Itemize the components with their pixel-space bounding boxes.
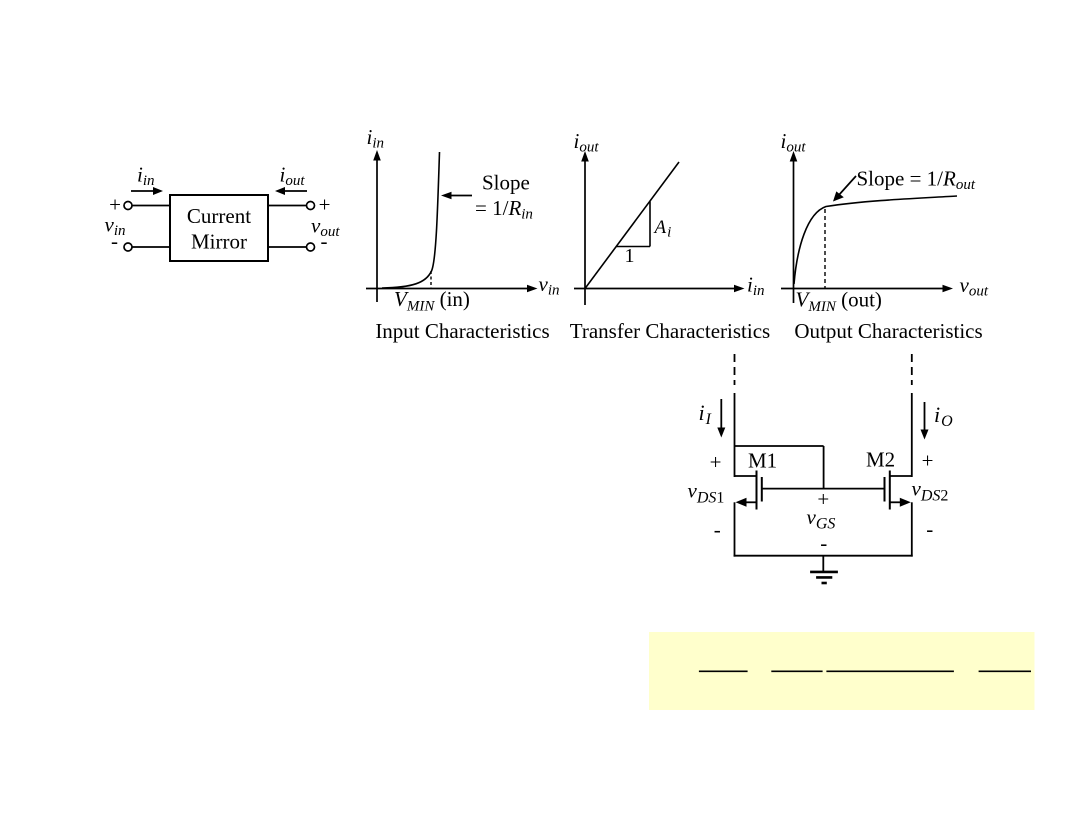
input curve [382,152,440,288]
input characteristics y-axis [373,150,381,302]
output curve [794,196,957,284]
svg-text:Transfer Characteristics: Transfer Characteristics [570,319,770,343]
svg-text:Mirror: Mirror [191,230,247,254]
fraction bar 2 [771,670,822,672]
dashed vmin(in) line [430,271,432,289]
node input + terminal [124,202,132,210]
transfer characteristics x-axis [574,285,745,293]
arrow iO [921,402,929,440]
wire source M2 down [911,502,913,556]
wire input bottom [132,246,170,248]
output characteristics x-axis [781,285,953,293]
svg-text:+: + [922,448,934,472]
svg-text:Slope: Slope [482,171,530,195]
transistor M2 [885,471,912,510]
svg-text:Input Characteristics: Input Characteristics [375,319,549,343]
wire drain M2 upper [911,393,913,477]
arrow slope pointer input [441,192,472,200]
current mirror block U1 [170,195,268,261]
node output - terminal [307,243,315,251]
svg-text:-: - [926,517,933,541]
gain triangle [617,202,651,247]
dashed supply wire right [911,354,913,385]
svg-text:M1: M1 [748,449,777,473]
svg-text:+: + [319,193,331,217]
wire diode connection vertical [823,446,825,490]
wire drain M1 upper [734,393,736,477]
svg-text:+: + [710,450,722,474]
wire output bottom [268,246,307,248]
svg-text:+: + [817,487,829,511]
wire input top [132,205,170,207]
arrow iin [131,187,163,195]
fraction bar 4 [979,670,1031,672]
fraction bar 3 [826,670,954,672]
arrow iI [717,399,725,438]
svg-text:Output Characteristics: Output Characteristics [794,319,982,343]
wire source M1 down [734,502,736,556]
fraction bar 1 [699,670,748,672]
svg-text:-: - [820,531,827,555]
svg-text:M2: M2 [866,448,895,472]
wire output top [268,205,307,207]
transfer line [585,162,679,289]
svg-text:-: - [714,518,721,542]
dashed vmin(out) line [824,209,826,289]
dashed supply wire left [734,354,736,385]
wire gate bus [762,488,885,490]
transistor M1 [735,471,762,510]
ground [810,572,838,583]
svg-text:1: 1 [625,245,635,267]
wire diode connection top [735,445,824,447]
input characteristics x-axis [366,285,538,293]
node output + terminal [307,202,315,210]
wire bottom rail [734,555,913,557]
highlight equation box [649,632,1035,710]
node input - terminal [124,243,132,251]
transfer characteristics y-axis [581,151,589,305]
arrow iout [275,187,307,195]
output characteristics y-axis [790,151,798,303]
arrow slope pointer output [833,176,856,202]
wire ground stub [822,556,824,572]
svg-text:Current: Current [187,204,251,228]
